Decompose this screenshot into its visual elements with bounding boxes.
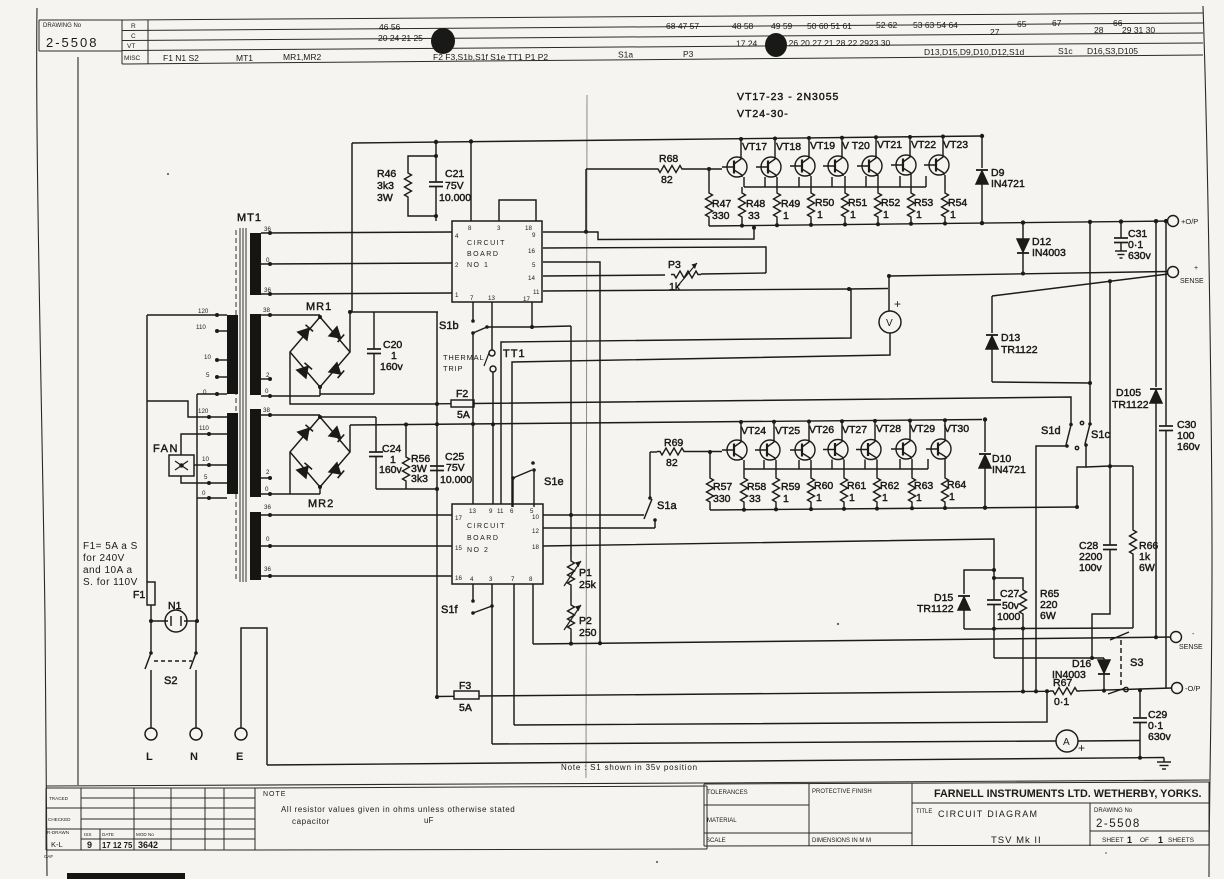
- svg-text:F2 F3,S1b,S1f S1e TT1 P1 P2: F2 F3,S1b,S1f S1e TT1 P1 P2: [433, 52, 548, 62]
- svg-text:+: +: [894, 297, 901, 311]
- svg-text:VT: VT: [127, 43, 135, 50]
- C20 labels: [380, 339, 404, 373]
- resistor R46: [405, 156, 437, 216]
- wire VT17 emitter to base bus: [743, 177, 745, 187]
- svg-text:65: 65: [1017, 19, 1027, 29]
- svg-text:V T20: V T20: [842, 140, 870, 152]
- svg-text:1: 1: [816, 492, 822, 504]
- wire 120 upper to L riser: [147, 314, 217, 316]
- wire V meter bottom to board2 pin6 line: [512, 333, 890, 507]
- capacitor C31: [1114, 222, 1128, 258]
- svg-text:0: 0: [202, 490, 206, 497]
- svg-text:ISS: ISS: [84, 832, 91, 837]
- svg-text:36: 36: [264, 504, 271, 511]
- wire sec bottom 0 to board2 pin15: [261, 545, 452, 547]
- svg-text:18: 18: [525, 225, 532, 232]
- fuse F3: [437, 691, 479, 699]
- svg-text:0: 0: [265, 486, 269, 493]
- svg-text:VT26: VT26: [809, 424, 834, 436]
- svg-text:67: 67: [1052, 18, 1062, 28]
- emitter resistors R58-R64: [741, 459, 949, 510]
- svg-text:NO 1: NO 1: [467, 262, 489, 269]
- resistor R56: [403, 425, 410, 489]
- svg-text:15: 15: [455, 545, 462, 552]
- svg-text:TOLERANCES: TOLERANCES: [707, 790, 748, 796]
- wire MR2 right vertex to rail2: [349, 425, 351, 452]
- R56 labels: [411, 453, 430, 485]
- MT1 primary winding bar lower: [227, 413, 238, 494]
- svg-text:FAN: FAN: [153, 443, 179, 455]
- primary tap dots lower: [207, 415, 211, 500]
- svg-text:D16,S3,D105: D16,S3,D105: [1087, 46, 1138, 56]
- resistor R67: [1050, 688, 1172, 695]
- svg-text:110: 110: [199, 425, 209, 432]
- primary tap stubs upper: [217, 315, 227, 394]
- secondary tap labels MR1 winding: [263, 307, 270, 395]
- svg-text:82: 82: [666, 457, 678, 469]
- wire board1 pin17 down: [531, 302, 533, 327]
- svg-text:14: 14: [528, 275, 535, 282]
- wire S1c riser from +O/P rail: [1089, 222, 1091, 423]
- svg-text:13: 13: [469, 508, 476, 515]
- wire -SENSE long line: [533, 637, 1176, 644]
- svg-text:R49: R49: [781, 198, 800, 210]
- header VT row numbers: [736, 38, 891, 49]
- wire P2 to sense line: [570, 632, 572, 644]
- svg-text:33: 33: [749, 493, 761, 505]
- svg-text:DRAWING No: DRAWING No: [1094, 808, 1133, 814]
- svg-text:R61: R61: [847, 480, 866, 492]
- wire sec bottom 36 to board2 pin16: [261, 575, 452, 577]
- primary tap stubs lower: [209, 417, 227, 498]
- +O/P rail dots: [740, 219, 1168, 228]
- header verticals: [38, 20, 40, 51]
- D12 labels: [1032, 236, 1066, 259]
- wire board2 pin7 down: [513, 584, 515, 725]
- svg-text:SHEET: SHEET: [1102, 837, 1124, 844]
- svg-text:All resistor values given i: All resistor values given in ohms unless…: [281, 805, 515, 814]
- sense line dots: [569, 635, 1158, 645]
- fold crease: [586, 95, 587, 778]
- svg-text:9: 9: [489, 508, 493, 515]
- capacitor C20: [320, 312, 381, 394]
- secondary tap labels top winding: [264, 226, 271, 294]
- wire sense drop to C28: [1109, 281, 1111, 545]
- terminal -O/P: [1172, 683, 1183, 694]
- svg-text:MT1: MT1: [236, 53, 253, 63]
- R67 labels: [1053, 677, 1072, 708]
- diode D9: [976, 134, 988, 223]
- svg-text:F1= 5A a S: F1= 5A a S: [83, 541, 138, 552]
- voltmeter V: [879, 311, 901, 333]
- F3 labels: [459, 680, 472, 714]
- R47-R54 labels: [712, 197, 967, 222]
- wire pin14 to P3: [543, 275, 665, 276]
- R68 labels: [659, 153, 678, 186]
- svg-text:1: 1: [949, 491, 955, 503]
- svg-text:120: 120: [198, 308, 209, 315]
- circuit board no2 text: [467, 523, 506, 554]
- svg-text:5A: 5A: [459, 702, 472, 714]
- ink blot 1: [431, 28, 455, 54]
- svg-text:IN4003: IN4003: [1052, 669, 1086, 681]
- wire board1 pin13 to thermal trip: [491, 302, 493, 350]
- VT17-23 collector stubs: [741, 136, 943, 157]
- secondary tap labels MR2 winding: [263, 407, 270, 493]
- svg-text:MOD No: MOD No: [136, 832, 154, 837]
- wire board2 pin12 to S1a: [543, 527, 655, 529]
- diode D10: [979, 417, 991, 507]
- transistor VT18: [756, 157, 781, 177]
- R69 labels: [664, 437, 683, 469]
- wire sec 36 to board1 pin4: [261, 232, 452, 233]
- F2 labels: [456, 388, 470, 421]
- svg-text:SCALE: SCALE: [706, 838, 726, 844]
- svg-text:11: 11: [497, 508, 504, 515]
- MT1 secondary winding bar MR1: [250, 314, 261, 395]
- switch S1e: [511, 461, 536, 507]
- svg-text:VT24-30-: VT24-30-: [737, 108, 789, 120]
- svg-text:3642: 3642: [138, 840, 158, 850]
- svg-text:and 10A a: and 10A a: [83, 565, 133, 576]
- svg-text:R53: R53: [914, 197, 933, 209]
- svg-text:1: 1: [1127, 835, 1132, 845]
- wire MR2 bottom vertex: [319, 487, 321, 494]
- left revision table: [44, 788, 255, 859]
- svg-text:S1f: S1f: [441, 604, 458, 616]
- svg-text:5: 5: [532, 262, 536, 269]
- x437 dots: [435, 402, 439, 699]
- svg-text:1: 1: [882, 492, 888, 504]
- wire R65 drop to rail: [1022, 629, 1024, 692]
- wire mid line to R67 rail riser: [514, 691, 1047, 725]
- svg-text:S1c: S1c: [1058, 46, 1073, 56]
- diode D16: [1098, 658, 1110, 690]
- svg-text:11: 11: [533, 289, 540, 296]
- transistor VT19: [790, 156, 815, 176]
- sense line dots: [887, 272, 1025, 279]
- svg-text:17: 17: [523, 296, 530, 303]
- svg-text:VT24: VT24: [741, 425, 766, 437]
- paper right edge: [1203, 6, 1212, 877]
- svg-text:DRAWING No: DRAWING No: [43, 23, 82, 29]
- wire emitter bus row2: [710, 507, 1077, 510]
- wire S1d to x1036 drop: [1036, 446, 1067, 691]
- svg-text:IN4721: IN4721: [991, 178, 1025, 190]
- wire S1b lower to board2 pin13: [472, 333, 474, 504]
- svg-text:S1a: S1a: [618, 50, 633, 60]
- svg-text:FARNELL INSTRUMENTS LTD. WETH: FARNELL INSTRUMENTS LTD. WETHERBY, YORKS…: [934, 788, 1202, 800]
- svg-text:0·1: 0·1: [1054, 696, 1069, 708]
- svg-text:R47: R47: [712, 198, 731, 210]
- svg-text:P2: P2: [579, 615, 592, 627]
- wire F2 rail to S1d: [474, 397, 1071, 423]
- transistor VT23: [924, 155, 949, 175]
- svg-text:CIRCUIT DIAGRAM: CIRCUIT DIAGRAM: [938, 809, 1038, 819]
- svg-text:OF: OF: [1140, 837, 1149, 844]
- svg-text:10: 10: [204, 354, 211, 361]
- wire R65 R66 bottom tie: [994, 627, 1133, 630]
- terminal -SENSE: [1171, 632, 1182, 643]
- svg-text:25k: 25k: [579, 579, 597, 591]
- svg-text:330: 330: [712, 210, 730, 222]
- wire A meter to C29 node: [1078, 740, 1140, 743]
- svg-text:S2: S2: [164, 675, 177, 687]
- neon N1: [151, 610, 197, 632]
- svg-text:48 58: 48 58: [732, 21, 754, 31]
- rail2 dots: [404, 422, 475, 427]
- header R row numbers: [379, 18, 1123, 32]
- svg-text:12: 12: [532, 528, 539, 535]
- svg-text:110: 110: [196, 324, 206, 331]
- svg-text:10.000: 10.000: [440, 474, 472, 486]
- svg-text:BOARD: BOARD: [467, 535, 499, 542]
- terminal L: [145, 728, 157, 740]
- circuit board no1 box: [452, 221, 542, 302]
- P2 labels: [579, 615, 597, 639]
- svg-text:TR1122: TR1122: [1112, 399, 1149, 411]
- svg-text:V: V: [886, 318, 893, 329]
- svg-text:NO 2: NO 2: [467, 547, 489, 554]
- header MISC row: [163, 46, 1138, 63]
- svg-text:R64: R64: [947, 479, 966, 491]
- R65 labels: [1040, 588, 1059, 622]
- svg-text:10: 10: [532, 514, 539, 521]
- dots sec bottom winding: [268, 513, 272, 578]
- svg-text:38: 38: [263, 307, 270, 314]
- svg-text:F2: F2: [456, 388, 468, 400]
- wire R68 left riser: [585, 169, 587, 232]
- svg-text:VT27: VT27: [842, 424, 867, 436]
- svg-text:F3: F3: [459, 680, 471, 692]
- svg-text:6W: 6W: [1040, 610, 1056, 622]
- switch S1d: [1065, 423, 1079, 450]
- svg-text:MR2: MR2: [308, 498, 334, 510]
- MT1 secondary winding bar bottom (36-0-36): [250, 512, 261, 580]
- svg-text:R68: R68: [659, 153, 678, 165]
- svg-text:VT25: VT25: [775, 425, 800, 437]
- C28 labels: [1079, 540, 1103, 574]
- wire MR2 apex to C24 top: [320, 416, 376, 418]
- svg-text:CAF: CAF: [44, 854, 53, 859]
- wire MR1 left vertex down to F2 rail: [290, 352, 436, 404]
- svg-text:1000: 1000: [997, 611, 1021, 623]
- svg-text:1: 1: [849, 492, 855, 504]
- header row line R/C: [122, 23, 1203, 31]
- MT1 primary winding bar upper: [227, 315, 238, 394]
- wire MR1 right vertex to top rail: [349, 312, 351, 352]
- wire MR1 DC top rail to C20: [350, 311, 438, 313]
- terminal N: [190, 728, 202, 740]
- diode D15: [958, 596, 970, 629]
- long vertical x437: [436, 312, 438, 697]
- svg-text:3W: 3W: [377, 192, 393, 204]
- D10 labels: [992, 453, 1026, 476]
- terminal +O/P: [1168, 216, 1179, 227]
- capacitor C24: [369, 417, 383, 489]
- svg-text:R-DRAWN: R-DRAWN: [47, 830, 69, 835]
- svg-text:1: 1: [783, 210, 789, 222]
- terminal +SENSE: [1168, 267, 1179, 278]
- C31 labels: [1128, 228, 1152, 262]
- MT1 secondary winding bar top (36-0-36): [250, 233, 261, 295]
- svg-text:1: 1: [883, 209, 889, 221]
- svg-text:20 24 21 25: 20 24 21 25: [378, 33, 423, 43]
- transistor VT21: [857, 156, 882, 176]
- diode D12: [1017, 223, 1029, 273]
- svg-text:82: 82: [661, 174, 673, 186]
- fuse F1: [147, 582, 155, 620]
- svg-text:MR1,MR2: MR1,MR2: [283, 52, 322, 62]
- emitter bus row2 dots: [742, 505, 1079, 512]
- svg-text:TITLE: TITLE: [916, 809, 932, 815]
- bottom tie dots: [992, 627, 1025, 631]
- thermal trip TT1: [484, 350, 496, 372]
- svg-text:1: 1: [817, 209, 823, 221]
- svg-text:VT19: VT19: [810, 140, 835, 152]
- fuse F2: [436, 400, 474, 407]
- svg-text:A: A: [1063, 737, 1070, 748]
- wire C27 to D16 line: [994, 657, 1104, 659]
- svg-text:+O/P: +O/P: [1181, 217, 1198, 226]
- transistor VT29: [891, 439, 916, 459]
- C29 labels: [1148, 709, 1172, 743]
- rail dots near R67: [1021, 688, 1142, 693]
- paper left edge: [37, 8, 47, 876]
- svg-text:53 63 54 64: 53 63 54 64: [913, 20, 958, 30]
- svg-text:2-5508: 2-5508: [1096, 818, 1141, 830]
- svg-text:MR1: MR1: [306, 301, 332, 313]
- svg-text:R60: R60: [814, 480, 833, 492]
- svg-text:K-L: K-L: [51, 840, 63, 849]
- svg-text:8: 8: [529, 576, 533, 583]
- svg-text:MISC: MISC: [124, 55, 141, 62]
- wire tap38 MR2: [261, 414, 320, 416]
- earth bottom line: [267, 758, 1164, 766]
- wire +SENSE line: [889, 272, 1168, 277]
- svg-text:TR1122: TR1122: [1001, 344, 1038, 356]
- wire tap0 MR2: [261, 493, 320, 495]
- potentiometer P1: [564, 558, 581, 588]
- svg-text:3: 3: [497, 225, 501, 232]
- svg-text:4: 4: [455, 233, 459, 240]
- bridge rectifier MR2: [290, 415, 350, 489]
- svg-text:R57: R57: [713, 481, 732, 493]
- wire +O/P rail (emitter bus): [709, 221, 1173, 226]
- dots sec top winding: [268, 231, 272, 296]
- svg-text:S1d: S1d: [1041, 425, 1061, 437]
- svg-text:3k3: 3k3: [377, 180, 394, 192]
- svg-text:630v: 630v: [1128, 250, 1152, 262]
- svg-text:16: 16: [455, 575, 462, 582]
- svg-text:29 31 30: 29 31 30: [1122, 25, 1155, 35]
- wire TT1 to board2 pin9: [492, 372, 494, 504]
- C30 labels: [1177, 419, 1201, 453]
- wire D15 group bottom bus: [964, 628, 994, 630]
- VT24-30 labels: [741, 423, 969, 437]
- svg-text:SENSE: SENSE: [1180, 278, 1204, 285]
- wire top bus B+: [352, 136, 982, 143]
- resistor R68: [586, 166, 722, 173]
- switch S2: [145, 621, 198, 728]
- svg-text:VT22: VT22: [911, 139, 936, 151]
- svg-text:SHEETS: SHEETS: [1168, 837, 1195, 844]
- ammeter line: [492, 741, 1056, 744]
- svg-text:S1a: S1a: [657, 500, 677, 512]
- header row line C/VT: [122, 33, 1203, 41]
- svg-text:4: 4: [470, 576, 474, 583]
- C25 labels: [440, 451, 472, 486]
- wire P1 to P2: [570, 588, 572, 602]
- switch S1c: [1080, 421, 1091, 447]
- MT1 secondary winding bar MR2: [250, 409, 261, 497]
- svg-text:1k: 1k: [669, 281, 681, 293]
- svg-text:0: 0: [266, 536, 270, 543]
- svg-text:17 24: 17 24: [736, 39, 758, 49]
- svg-text:630v: 630v: [1148, 731, 1172, 743]
- bottom tie C24 R56 C25: [376, 488, 437, 490]
- svg-text:CIRCUIT: CIRCUIT: [467, 523, 506, 530]
- svg-text:SENSE: SENSE: [1179, 644, 1203, 651]
- svg-text:R: R: [131, 23, 136, 30]
- svg-text:CHECKED: CHECKED: [48, 817, 71, 822]
- bottom black bar: [67, 873, 185, 879]
- resistor R69: [650, 448, 722, 455]
- switch S1a: [644, 496, 657, 528]
- svg-text:S3: S3: [1130, 657, 1143, 669]
- svg-text:VT28: VT28: [876, 423, 901, 435]
- FAN blades: [175, 461, 188, 470]
- svg-text:VT21: VT21: [877, 139, 902, 151]
- switch S1f: [471, 584, 494, 615]
- svg-text:1: 1: [850, 209, 856, 221]
- svg-text:CIRCUIT: CIRCUIT: [467, 240, 506, 247]
- svg-text:R52: R52: [881, 197, 900, 209]
- transistor VT27: [823, 440, 848, 460]
- svg-text:33: 33: [748, 210, 760, 222]
- svg-text:160v: 160v: [380, 361, 404, 373]
- svg-text:49 59: 49 59: [771, 21, 793, 31]
- transistor VT30: [926, 439, 951, 459]
- F1 note text: [83, 541, 138, 588]
- capacitor C21: [429, 142, 443, 221]
- svg-text:38: 38: [263, 407, 270, 414]
- svg-text:R48: R48: [746, 198, 765, 210]
- wire base bus row2: [744, 468, 928, 470]
- P1 labels: [579, 567, 597, 591]
- svg-text:R58: R58: [747, 481, 766, 493]
- transistor VT25: [755, 440, 780, 460]
- R66 labels: [1139, 540, 1158, 574]
- svg-text:0: 0: [265, 388, 269, 395]
- svg-text:R54: R54: [948, 197, 967, 209]
- svg-text:N: N: [190, 751, 198, 763]
- svg-text:TR1122: TR1122: [917, 603, 954, 615]
- VT24-30 collector stubs: [741, 420, 945, 440]
- wire rail2 MR2 DC+ to VT24-30 bus: [350, 420, 982, 426]
- resistor R57: [707, 450, 714, 510]
- svg-text:9: 9: [532, 232, 536, 239]
- svg-text:D105: D105: [1116, 387, 1141, 399]
- svg-text:+: +: [1194, 265, 1198, 272]
- wire V+ riser to sense line: [888, 276, 890, 289]
- dots MR2 winding: [268, 413, 272, 496]
- wire sec bottom 36 to board2 pin17: [261, 514, 452, 516]
- board1 pin3-18 jumper: [499, 200, 536, 221]
- node dots D15 group: [992, 568, 996, 580]
- svg-text:9: 9: [87, 840, 92, 850]
- svg-text:1: 1: [916, 209, 922, 221]
